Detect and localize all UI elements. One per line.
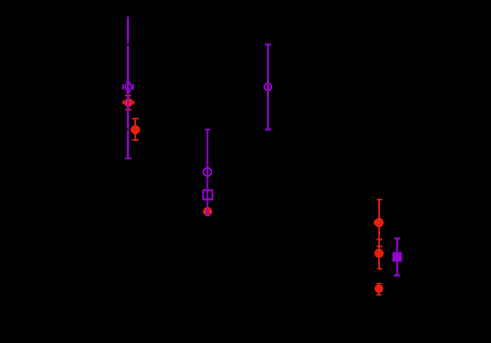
cluster 4 : red point R3 marker [374,218,383,227]
cluster 1 : open purple circle marker [125,84,132,91]
cluster 4 : red point R4 marker [374,249,383,258]
cluster 4 : purple square error bar with caps [394,238,400,275]
cluster 2 : open purple circle marker [203,168,211,176]
cluster 1 : black notch 2 on line [126,129,128,131]
cluster 2 : red filled circle marker [203,207,212,216]
cluster 4 : red long error bar line with caps [377,200,383,269]
cluster 1 : purple circle x-error caps [123,84,133,90]
cluster 1 : black notch 1 on line [127,44,129,46]
cluster 1 : red point R1 marker [124,98,133,107]
cluster 4 : red point R3 x-error left cap [373,221,375,225]
cluster 4 : filled purple square marker [392,252,402,262]
cluster 1 : red point R1 y-error bar [125,96,131,110]
cluster 1 : long purple error bar line [125,17,131,159]
cluster 2 : purple error bar with caps [205,130,210,215]
cluster 2 : open purple square marker [203,190,212,199]
cluster 1 : red point R1 x-error caps [123,100,133,104]
cluster 4 : red point R5 marker [375,284,384,293]
cluster 3 : open purple circle marker [264,83,271,90]
cluster 3 : purple error bar with caps [265,45,271,130]
cluster 1 : red point R2 marker [131,125,140,134]
cluster 4 : red point R5 error bar [376,284,381,295]
cluster 1 : red point R2 error bar [132,119,139,140]
cluster 1 : purple circle y-error caps [126,82,130,92]
